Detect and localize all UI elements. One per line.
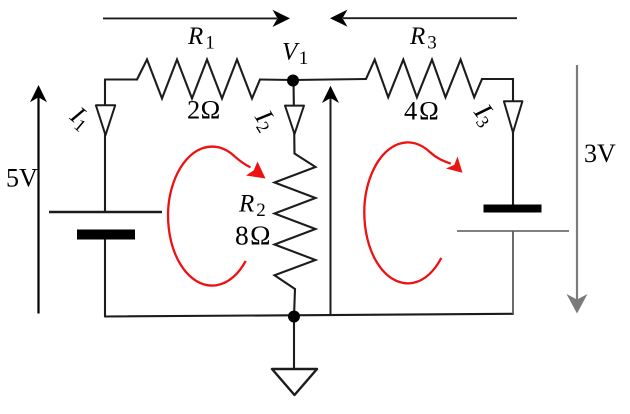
wire R2 bottom to bottom node [294,289,295,317]
annotation arrow top-right pointing left [330,10,517,27]
wire gray vertical from right battery to bottom wire [512,231,514,314]
current arrow I1 open arrowhead [96,105,115,135]
svg-text:I3: I3 [466,97,503,131]
resistor R2 zigzag (vertical) [275,154,316,290]
wire ground stem [293,317,295,370]
svg-text:I2: I2 [247,104,283,136]
wire node V1 down to I2 arrow [294,81,295,154]
wire bottom horizontal [105,314,513,317]
mesh current loop left red arc [168,147,250,286]
mesh current loop right red arc [364,142,450,283]
battery 3V right: thin gray positive plate [457,230,569,232]
wire left vertical from top wire to battery [104,80,106,213]
current arrow I3 open arrowhead [504,101,523,132]
svg-text:R1: R1 [187,23,215,54]
wire node V1 to R3 [293,79,366,80]
resistor R1 zigzag [137,60,260,99]
wire left vertical from battery to bottom wire [104,240,106,317]
annotation arrow 3V right side gray pointing down [567,65,588,314]
mesh current loop right red arrowhead [446,157,463,173]
battery 5V left: thin positive plate [49,211,162,214]
wire R3 to right corner, down to I3 [482,79,513,101]
node bottom junction dot [288,311,300,323]
ground symbol [272,369,317,395]
svg-text:V1: V1 [282,39,308,70]
wire top-left horizontal [105,78,137,80]
svg-text:5V: 5V [6,164,38,193]
annotation arrow middle pointing up [322,86,339,314]
current arrow I2 open arrowhead [285,106,304,134]
mesh current loop left red arrowhead [246,162,266,179]
svg-text:R2: R2 [238,191,266,222]
battery 5V left: thick negative plate [77,230,135,240]
wire right vertical from I3 to battery bar [512,133,514,205]
svg-text:2Ω: 2Ω [187,95,221,125]
svg-text:R3: R3 [409,23,437,54]
wire R1 to node V1 [260,78,293,81]
svg-text:I1: I1 [63,100,97,136]
annotation arrow top-left pointing right [103,10,290,27]
svg-text:8Ω: 8Ω [235,220,272,251]
node V1 junction dot [287,75,299,87]
battery 3V right: thick negative plate [484,205,542,213]
annotation arrow 5V left side pointing up [30,85,47,314]
svg-text:4Ω: 4Ω [404,96,441,126]
svg-text:3V: 3V [584,139,616,168]
resistor R3 zigzag [366,60,482,98]
